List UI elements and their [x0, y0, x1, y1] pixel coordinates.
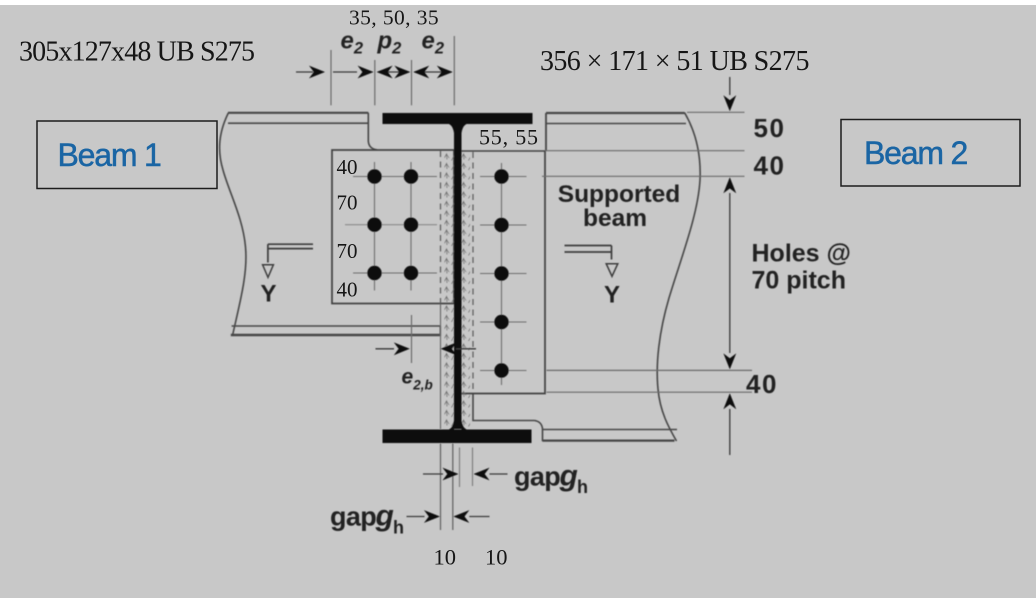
beam 1 bottom flange — [231, 326, 440, 336]
svg-text:70 pitch: 70 pitch — [752, 267, 846, 295]
svg-text:g: g — [375, 500, 394, 533]
top dimension arrows — [296, 71, 451, 73]
svg-text:40: 40 — [337, 155, 358, 179]
beam 1 notch vertical and corner — [368, 113, 377, 150]
bolts left plate (6) — [367, 169, 418, 280]
svg-text:70: 70 — [337, 239, 358, 263]
svg-text:beam: beam — [583, 205, 647, 232]
beam 1 break line (left wavy cut) — [220, 113, 246, 336]
hidden line right of web (dashed) — [472, 152, 474, 393]
bolts right plate (5) — [494, 169, 508, 377]
svg-text:356 × 171 × 51 UB S275: 356 × 171 × 51 UB S275 — [540, 46, 809, 77]
beam 1 callout box — [37, 121, 217, 189]
weld hatch left of web — [445, 152, 455, 428]
right dimension column — [542, 112, 752, 392]
supporting beam top flange — [383, 113, 533, 124]
supporting beam web — [454, 124, 462, 429]
fin plate left — [332, 150, 454, 304]
beam 2 bottom notch step — [473, 394, 543, 441]
beam 1 top flange — [228, 113, 368, 123]
svg-text:305x127x48 UB S275: 305x127x48 UB S275 — [19, 37, 254, 68]
svg-text:55, 55: 55, 55 — [479, 125, 539, 150]
bolt centerlines left plate — [345, 162, 437, 291]
beam 2 break line (right wavy cut) — [657, 113, 700, 442]
beam 2 callout box — [841, 120, 1020, 187]
fin plate right — [461, 151, 545, 394]
svg-text:gap: gap — [514, 462, 560, 492]
svg-text:Beam 1: Beam 1 — [58, 137, 161, 173]
supporting beam bottom flange — [383, 430, 532, 444]
svg-text:50: 50 — [754, 113, 786, 143]
beam 2 top flange — [546, 113, 686, 151]
svg-text:35, 50, 35: 35, 50, 35 — [349, 6, 439, 30]
beam 2 bottom flange — [543, 430, 678, 441]
gap dimension upper (right) — [423, 473, 443, 475]
weld hatch right of web — [462, 152, 471, 428]
svg-text:10: 10 — [485, 545, 508, 570]
svg-text:Beam 2: Beam 2 — [864, 135, 967, 171]
svg-text:Y: Y — [604, 282, 620, 309]
beam 1 section mark Y (double line flag) — [263, 244, 313, 277]
svg-text:40: 40 — [754, 151, 786, 181]
svg-text:Holes @: Holes @ — [752, 240, 851, 268]
svg-text:h: h — [393, 518, 404, 538]
svg-text:40: 40 — [746, 369, 778, 399]
svg-text:Supported: Supported — [558, 181, 681, 208]
hidden line left of web (dashed) — [440, 151, 442, 304]
svg-text:70: 70 — [337, 191, 358, 215]
svg-text:gap: gap — [330, 502, 376, 532]
e2b dimension — [412, 304, 441, 429]
svg-text:40: 40 — [337, 278, 358, 302]
svg-text:h: h — [577, 477, 588, 497]
bolt centerlines right plate — [480, 163, 527, 385]
gap dimension lower (left) — [407, 516, 425, 518]
top dimension extension lines e2 p2 e2 — [331, 36, 454, 105]
beam 2 section mark Y (double line flag) — [565, 246, 618, 277]
svg-text:10: 10 — [434, 545, 457, 570]
gap extension lines below flange — [441, 444, 453, 531]
svg-text:g: g — [559, 460, 578, 493]
svg-text:Y: Y — [261, 281, 277, 308]
